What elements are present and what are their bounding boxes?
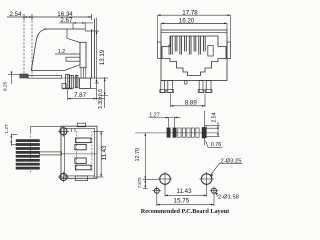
svg-text:Recommended P.C.Board Layout: Recommended P.C.Board Layout — [141, 208, 230, 215]
svg-text:12.70: 12.70 — [135, 148, 141, 162]
svg-text:2-Ø1.58: 2-Ø1.58 — [218, 194, 239, 200]
svg-text:0.25: 0.25 — [3, 82, 9, 92]
svg-text:7.87: 7.87 — [74, 92, 87, 99]
svg-text:0.76: 0.76 — [211, 142, 222, 148]
svg-text:11.43: 11.43 — [176, 188, 192, 195]
svg-text:8.89: 8.89 — [185, 100, 198, 107]
svg-text:15.75: 15.75 — [174, 198, 190, 205]
svg-text:3.30±0.5: 3.30±0.5 — [98, 89, 104, 109]
svg-text:7.875: 7.875 — [137, 177, 142, 189]
svg-text:1.2: 1.2 — [58, 49, 65, 55]
svg-text:11.43: 11.43 — [101, 145, 108, 161]
svg-text:2.54: 2.54 — [211, 112, 217, 122]
svg-text:1.27: 1.27 — [4, 124, 10, 134]
svg-text:2-Ø3.25: 2-Ø3.25 — [221, 159, 242, 165]
svg-text:16.20: 16.20 — [179, 17, 195, 24]
svg-text:2.54: 2.54 — [9, 11, 22, 18]
svg-text:1.27: 1.27 — [149, 113, 160, 119]
svg-text:2.67: 2.67 — [60, 17, 73, 24]
svg-text:13.19: 13.19 — [99, 49, 106, 65]
svg-text:17.78: 17.78 — [182, 9, 198, 16]
